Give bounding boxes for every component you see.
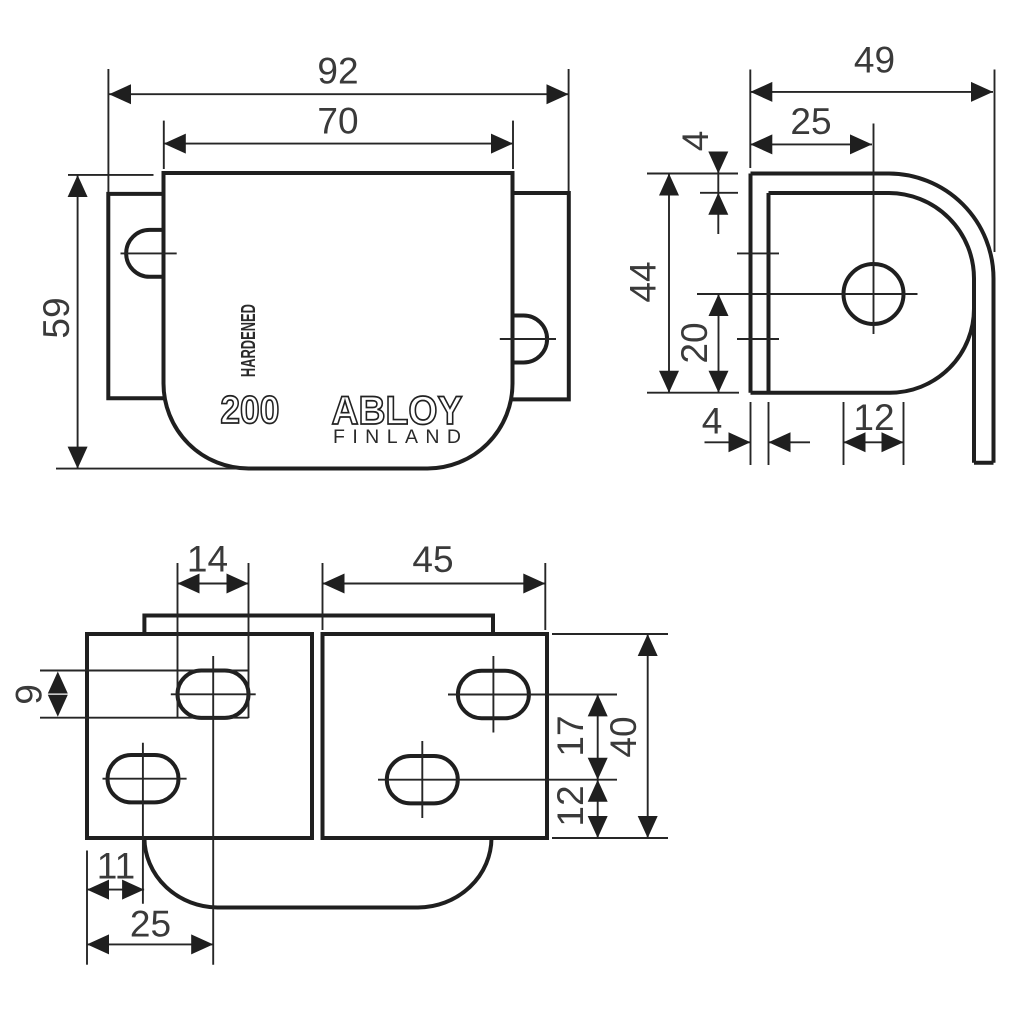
svg-text:49: 49	[854, 40, 895, 81]
svg-text:4: 4	[675, 131, 716, 152]
svg-text:14: 14	[187, 539, 228, 580]
svg-text:4: 4	[702, 401, 723, 442]
svg-text:70: 70	[317, 101, 358, 142]
svg-text:HARDENED: HARDENED	[238, 304, 260, 377]
svg-text:59: 59	[36, 297, 77, 338]
svg-text:44: 44	[623, 261, 664, 302]
svg-text:11: 11	[97, 846, 135, 887]
svg-text:12: 12	[550, 785, 591, 826]
svg-text:20: 20	[674, 322, 715, 363]
svg-text:12: 12	[853, 397, 894, 438]
svg-text:9: 9	[9, 684, 50, 705]
svg-text:200: 200	[220, 389, 279, 432]
svg-text:25: 25	[790, 101, 831, 142]
svg-text:45: 45	[412, 539, 453, 580]
svg-text:92: 92	[317, 51, 358, 92]
svg-text:40: 40	[603, 716, 644, 757]
svg-text:17: 17	[550, 715, 591, 756]
svg-text:25: 25	[130, 904, 171, 945]
